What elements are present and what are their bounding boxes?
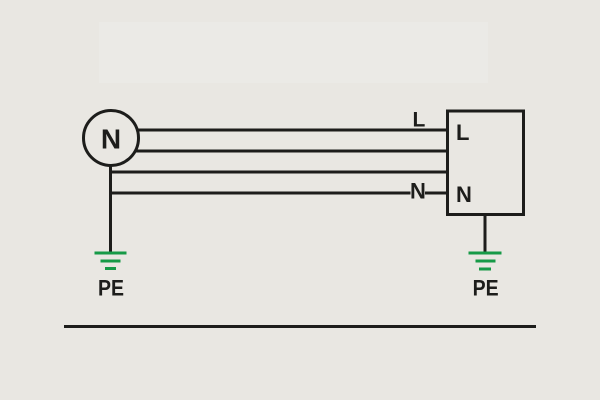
svg-text:L: L bbox=[456, 120, 469, 145]
svg-text:L: L bbox=[413, 109, 426, 132]
svg-text:N: N bbox=[456, 182, 472, 207]
svg-text:PE: PE bbox=[98, 276, 124, 301]
svg-text:PE: PE bbox=[473, 276, 499, 301]
svg-text:N: N bbox=[101, 123, 121, 154]
svg-text:N: N bbox=[410, 179, 426, 204]
